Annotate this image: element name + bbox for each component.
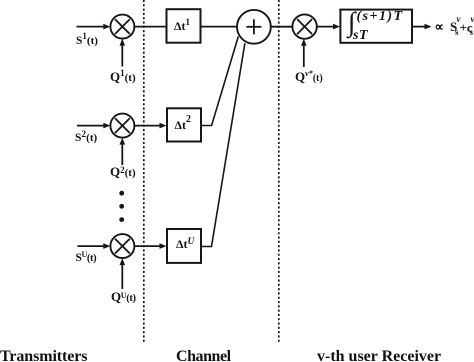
multiplier M2 (X circle, row 2)	[110, 114, 134, 138]
wire: input sU into multiplier 3	[78, 243, 111, 249]
delay block DU	[167, 229, 201, 263]
label s2(t)	[75, 130, 97, 145]
wire: QU up into multiplier 3	[120, 258, 126, 289]
integrator block INT	[340, 10, 412, 43]
label Q2(t)	[110, 165, 136, 179]
label integrator limits	[348, 8, 356, 36]
wire: multiplier 3 to delay block U	[134, 243, 166, 249]
wire: input s2 into multiplier 2	[77, 123, 110, 129]
label delay block 2 value	[175, 119, 192, 132]
dashed separator line 2 (Channel/Receiver boundary)	[278, 0, 280, 344]
label output proportional to Ss+cs	[435, 20, 444, 33]
ellipsis dots between row 2 and row 3	[119, 191, 124, 222]
multiplier M3 (X circle, row 3)	[110, 234, 134, 258]
wire: delay block U stub then diagonal to summer	[201, 43, 245, 246]
delay block D2	[167, 108, 201, 141]
wire: summer to receiver multiplier	[271, 26, 293, 28]
label sU(t)	[76, 250, 97, 265]
label s1(t)	[76, 33, 98, 48]
label Q1(t)	[110, 70, 136, 84]
wire: Qv* up into multiplier 4	[301, 39, 307, 67]
label delay block 1 value	[174, 20, 190, 32]
multiplier M4 (receiver X circle)	[292, 14, 316, 38]
label Qv*(t)	[295, 70, 323, 84]
wire: integrator output arrow	[412, 24, 432, 30]
summer S (+ circle)	[237, 10, 271, 44]
label QU(t)	[111, 290, 136, 305]
wire: input s1 into multiplier 1	[77, 24, 111, 30]
label v-th user Receiver	[317, 349, 441, 362]
delay block D1	[167, 9, 201, 43]
wire: delay block 2 stub then diagonal to summer	[201, 37, 238, 126]
wire: multiplier 4 to integrator	[317, 24, 340, 30]
wire: delay block 1 to summer	[201, 26, 238, 28]
multiplier M1 (X circle, row 1)	[110, 15, 134, 39]
wire: multiplier 1 to delay block 1	[134, 26, 166, 28]
label Transmitters	[0, 349, 87, 362]
dashed separator line 1 (Transmitters/Channel boundary)	[143, 0, 145, 344]
label Channel	[176, 349, 231, 362]
wire: Q2 up into multiplier 2	[120, 138, 126, 165]
label delay block U value	[176, 238, 194, 252]
wire: Q1 up into multiplier 1	[120, 39, 126, 67]
wire: multiplier 2 to delay block 2	[134, 123, 166, 129]
